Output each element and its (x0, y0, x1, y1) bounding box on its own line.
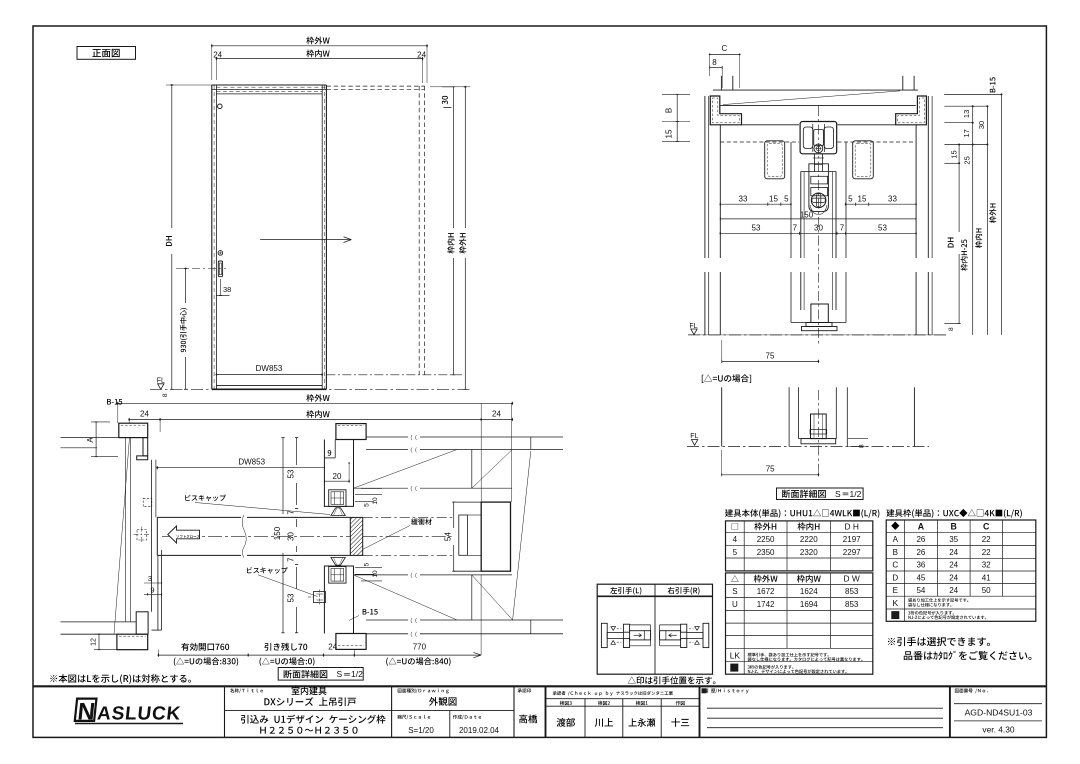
note 引手は選択 (888, 637, 990, 646)
section floor guide (811, 304, 828, 323)
svg-text:D H: D H (844, 521, 858, 531)
title cell 名称 (230, 688, 263, 693)
svg-text:22: 22 (982, 548, 991, 557)
section track housing (800, 122, 837, 154)
plan label B-15 top left (107, 399, 122, 405)
check-up names (557, 718, 575, 727)
svg-text:53: 53 (752, 223, 761, 232)
section wall studs above header (720, 76, 722, 90)
svg-text:150: 150 (800, 210, 814, 219)
svg-text:AGD-ND4SU1-03: AGD-ND4SU1-03 (965, 707, 1033, 717)
svg-text:1624: 1624 (800, 587, 818, 596)
plan dim A (91, 421, 110, 423)
plan pocket end post (481, 502, 510, 571)
check-up header (553, 691, 673, 696)
U-case label (702, 374, 751, 383)
front view roller access hole (218, 104, 223, 109)
svg-text:33: 33 (888, 195, 897, 204)
plan left jamb lower stop (136, 612, 148, 634)
svg-text:ASLUCK: ASLUCK (96, 704, 181, 725)
table 建具本体 upper grid (726, 521, 873, 571)
svg-text:1672: 1672 (757, 587, 775, 596)
U-case view lines (817, 390, 819, 470)
svg-text:2250: 2250 (757, 535, 775, 544)
table 建具本体 lower grid (726, 573, 873, 674)
svg-text:36: 36 (916, 561, 925, 570)
plan wall braces bottom (354, 575, 458, 620)
svg-text:4: 4 (733, 535, 738, 544)
svg-text:26: 26 (916, 548, 925, 557)
plan label B-15 lower (363, 609, 378, 615)
plan bottom dim texts (181, 643, 229, 651)
title cell 承認印 (518, 688, 531, 692)
U-case dim 8 (848, 438, 868, 440)
front view slide direction arrow (260, 239, 351, 241)
front view dim DH (171, 85, 173, 228)
plan center jamb upper body (324, 440, 353, 507)
svg-text:5: 5 (733, 548, 738, 557)
drawing number header (955, 688, 988, 693)
section dim 枠内H line (986, 106, 988, 335)
title block horizontals (225, 710, 515, 712)
front view dim 枠内H (453, 87, 455, 228)
svg-text:853: 853 (845, 600, 859, 609)
section side bracket right (853, 141, 874, 179)
svg-text:2019.02.04: 2019.02.04 (459, 726, 500, 735)
svg-text:75: 75 (766, 351, 775, 360)
section dim 枠外H line (1001, 94, 1003, 335)
plan center jamb trumpet lower (331, 558, 345, 566)
front view door frame outline (211, 85, 213, 389)
svg-text:2197: 2197 (843, 535, 861, 544)
front view handle (218, 251, 223, 256)
svg-text:1742: 1742 (757, 600, 775, 609)
plan dim 枠外W (306, 394, 329, 402)
plan center jamb trumpet upper (331, 508, 345, 516)
svg-text:S: S (337, 669, 343, 679)
svg-text:13: 13 (962, 110, 971, 118)
U-case floor line (687, 446, 929, 448)
svg-text:22: 22 (982, 535, 991, 544)
handle diagram right stub (687, 633, 703, 639)
svg-text:30: 30 (977, 121, 986, 129)
handle box header right (668, 587, 700, 595)
svg-text:7: 7 (793, 223, 798, 232)
plan door centerline (162, 535, 350, 537)
svg-text:C: C (983, 521, 990, 531)
svg-text:ver. 4.30: ver. 4.30 (982, 725, 1014, 735)
plan wall bottom liner (354, 574, 409, 576)
front view pocket dashed outline (326, 85, 424, 87)
plan 緩衝材 label and leader (411, 518, 432, 525)
plan door cushion 緩衝材 hatch (350, 517, 362, 555)
svg-text:75: 75 (766, 465, 775, 474)
section centerline (817, 106, 819, 345)
svg-text:B: B (893, 548, 898, 557)
svg-text:S: S (835, 489, 841, 499)
svg-text:24: 24 (213, 50, 222, 59)
table 建具本体 header W (731, 575, 739, 582)
svg-text:5: 5 (364, 562, 371, 566)
svg-text:38: 38 (223, 285, 231, 294)
svg-text:150: 150 (273, 526, 282, 540)
table 建具本体 row black square (730, 664, 738, 672)
svg-text:S: S (732, 587, 737, 596)
front view floor line (212, 388, 327, 390)
U-case dim 75 (722, 474, 819, 476)
svg-text:853: 853 (845, 587, 859, 596)
section wall lines left (704, 96, 706, 258)
svg-text:1/2: 1/2 (850, 489, 862, 499)
svg-text:53: 53 (287, 593, 296, 602)
plan pocket end receiver (454, 501, 482, 503)
front view dim 30 top right (442, 96, 448, 105)
section side bracket left (765, 141, 785, 179)
section hanger wheel bolt (814, 144, 823, 153)
handle box caption (628, 676, 716, 684)
plan wall lines left of jamb (61, 437, 119, 439)
plan dim 9 upper (328, 450, 332, 456)
section left casing profile (710, 96, 741, 125)
plan left jamb lower band (157, 555, 159, 630)
plan door leaf (157, 516, 241, 518)
svg-text:8: 8 (712, 58, 717, 67)
svg-text:7: 7 (287, 510, 296, 515)
svg-text:10: 10 (372, 570, 379, 578)
svg-text:32: 32 (982, 561, 991, 570)
svg-text:K: K (892, 598, 898, 608)
label 正面図 box (77, 47, 136, 60)
plan center jamb lower body (324, 566, 353, 634)
svg-text:45: 45 (916, 573, 925, 582)
handle diagram left stub (607, 633, 623, 639)
table 建具枠 grid (886, 520, 1036, 621)
svg-text:24: 24 (949, 573, 958, 582)
svg-text:2320: 2320 (800, 548, 818, 557)
svg-text:35: 35 (949, 535, 958, 544)
svg-text:33: 33 (739, 195, 748, 204)
svg-text:DW853: DW853 (238, 457, 265, 466)
plan dim 12 (94, 633, 113, 635)
table 建具枠 header (891, 522, 899, 530)
svg-text:7: 7 (287, 557, 296, 562)
section door leaf (800, 172, 802, 259)
drawing number cell lines (954, 703, 1042, 705)
check-up column headers (560, 701, 572, 705)
plan center jamb upper casing (336, 424, 366, 440)
svg-text:54: 54 (444, 532, 453, 541)
section dim 枠内H-25 line (972, 106, 974, 335)
svg-text:24: 24 (140, 410, 149, 419)
table 建具本体 title (725, 509, 879, 518)
plan label ビスキャップ lower (247, 567, 288, 574)
svg-text:5: 5 (784, 195, 789, 204)
svg-text:10: 10 (372, 497, 379, 505)
svg-text:1/2: 1/2 (351, 669, 363, 679)
svg-text:24: 24 (949, 586, 958, 595)
svg-text:24: 24 (949, 548, 958, 557)
plan lower-left jamb screw detail (314, 592, 326, 603)
front view casing dashes (213, 85, 215, 389)
svg-text:50: 50 (982, 586, 991, 595)
section dim B-15 label (990, 77, 996, 92)
svg-text:17: 17 (962, 129, 971, 137)
section dim row 33 15 5 / 5 15 33 (720, 203, 791, 205)
section pocket top dashed line (720, 141, 799, 143)
plan vertical dim 53 7 30 7 53 (296, 438, 298, 465)
svg-text:D W: D W (844, 574, 860, 584)
svg-text:7: 7 (840, 223, 845, 232)
svg-text:41: 41 (982, 573, 991, 582)
plan door phantom lines in pocket (363, 516, 454, 518)
svg-text:C: C (892, 561, 898, 570)
handle diagram left frame bar (601, 623, 607, 647)
svg-text:26: 26 (916, 535, 925, 544)
svg-text:1694: 1694 (800, 600, 818, 609)
svg-text:8: 8 (859, 444, 866, 448)
U-case door bottom and guide (799, 438, 837, 440)
plan wall braces top (354, 450, 458, 489)
section head jamb bottom edge (742, 124, 800, 126)
label 断面詳細図 box (left) (278, 668, 363, 681)
plan wall end break diagonal (513, 451, 531, 620)
section left dim B and 15 (662, 93, 690, 95)
svg-text:8: 8 (162, 393, 169, 397)
svg-text:A: A (893, 535, 899, 544)
plan label ビスキャップ upper (185, 495, 226, 502)
svg-text:24: 24 (417, 50, 426, 59)
label 断面詳細図 box (right) (777, 488, 864, 500)
front view door bottom edge (216, 385, 322, 387)
plan dims 5 10 upper (355, 494, 382, 496)
plan note 本図はL (50, 674, 191, 684)
table 建具枠 title (886, 509, 1021, 518)
plan center jamb screw detail lower (329, 567, 346, 584)
handle diagram right frame bar (703, 623, 709, 647)
table 建具枠 row black square (891, 611, 899, 619)
svg-text:N: N (76, 699, 96, 726)
svg-text:LK: LK (730, 651, 741, 661)
plan left jamb catch plate (143, 498, 152, 506)
svg-text:15: 15 (858, 195, 867, 204)
front view dim 930 引手中心 (185, 269, 187, 304)
front view dim 24 / 枠内W / 24 (306, 50, 329, 58)
plan wall break marks (411, 435, 417, 440)
svg-text:15: 15 (665, 129, 674, 138)
front view dim 38 (219, 279, 221, 296)
plan left jamb slot face (151, 460, 153, 612)
title cell 外観図 (398, 688, 449, 693)
section pocket liner boards (790, 142, 792, 258)
svg-text:5: 5 (848, 195, 853, 204)
title block verticals (224, 686, 226, 737)
plan center jamb lower casing (336, 634, 366, 650)
svg-text:B: B (951, 521, 957, 531)
plan wall break diagonal left (114, 438, 130, 635)
svg-text:8: 8 (948, 327, 955, 331)
svg-text:3: 3 (148, 574, 152, 583)
svg-text:C: C (722, 44, 728, 53)
handle box header left (610, 587, 641, 595)
plan door end catch symbol (137, 530, 147, 541)
svg-text:2220: 2220 (800, 535, 818, 544)
svg-text:24: 24 (328, 643, 337, 652)
section left frame face (719, 125, 721, 258)
history header (704, 689, 748, 694)
svg-text:2350: 2350 (757, 548, 775, 557)
svg-text:D: D (892, 573, 898, 582)
history lines (707, 707, 943, 709)
front view handle center dashed leader (176, 268, 226, 270)
section right dim stack reference lines (944, 93, 1001, 95)
table 建具本体 header texts (732, 523, 738, 529)
svg-text:25: 25 (963, 156, 972, 164)
section door hanger bracket (809, 164, 829, 212)
section right casing profile (896, 96, 927, 125)
section floor line (688, 334, 946, 336)
svg-text:54: 54 (916, 586, 925, 595)
plan wall studs (471, 450, 473, 489)
svg-text:770: 770 (413, 643, 427, 652)
svg-text:E: E (893, 586, 898, 595)
svg-text:30: 30 (814, 223, 823, 232)
plan dims 5 10 lower (355, 567, 382, 569)
plan door break squiggle (242, 515, 246, 558)
plan left jamb casing (119, 423, 148, 437)
plan wall top band (366, 436, 408, 438)
section dim 75 (722, 360, 819, 362)
svg-text:24: 24 (949, 561, 958, 570)
svg-text:53: 53 (878, 223, 887, 232)
plan wall bottom band (366, 619, 408, 621)
plan center jamb screw detail upper (329, 490, 346, 507)
svg-text:U: U (732, 600, 738, 609)
section header beam (713, 89, 918, 91)
NASLUCK logo (73, 698, 182, 726)
section right frame face (915, 125, 917, 258)
section dim row 53 7 30 7 53 (720, 232, 916, 234)
front view top dim 枠外W (306, 37, 329, 45)
plan dim 54 (453, 502, 455, 528)
svg-text:DW853: DW853 (256, 364, 283, 373)
svg-text:B: B (665, 108, 674, 113)
front view dim 枠外H (464, 87, 466, 228)
svg-text:15: 15 (769, 195, 778, 204)
plan bottom dim line (158, 654, 481, 656)
svg-text:12: 12 (91, 638, 98, 646)
svg-text:20: 20 (333, 472, 342, 481)
svg-text:53: 53 (287, 469, 296, 478)
svg-text:15: 15 (950, 150, 959, 158)
handle diagram left door (623, 624, 629, 632)
handle selection box (597, 584, 712, 674)
svg-text:2297: 2297 (843, 548, 861, 557)
section hanger adjust screw (811, 193, 826, 208)
svg-text:A: A (918, 521, 925, 531)
svg-text:9: 9 (150, 585, 154, 594)
svg-text:5: 5 (364, 503, 371, 507)
handle diagram right door (681, 624, 687, 632)
plan vertical dim 150 (282, 438, 284, 514)
plan left jamb leg and foot (143, 438, 148, 456)
svg-text:S=1/20: S=1/20 (408, 726, 434, 735)
title block top thick line (33, 685, 1046, 687)
plan dim extension lines (117, 403, 119, 423)
svg-text:24: 24 (492, 410, 501, 419)
front view door top rail (216, 93, 322, 95)
plan soft-close arrow (168, 526, 200, 543)
section wall lines right (927, 96, 929, 258)
plan wall top liner (354, 487, 409, 489)
section dim DH line (958, 145, 960, 233)
